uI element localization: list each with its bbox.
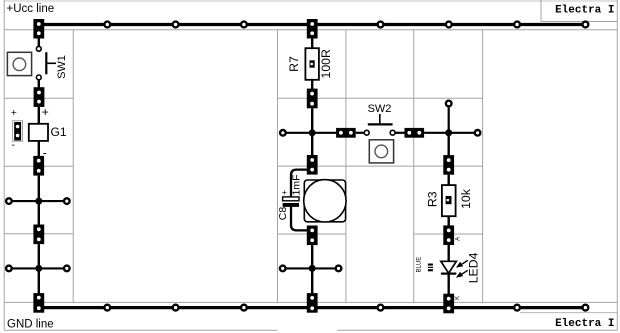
- svg-text:K: K: [455, 296, 461, 300]
- row strip node (left, row B): [6, 266, 70, 272]
- svg-text:1mF: 1mF: [290, 175, 302, 196]
- wire: [38, 80, 40, 88]
- svg-text:A: A: [455, 237, 461, 241]
- svg-text:+: +: [282, 187, 287, 197]
- wire: [38, 39, 40, 47]
- svg-text:GND line: GND line: [7, 319, 54, 331]
- wire: [38, 107, 40, 125]
- svg-text:+: +: [42, 105, 49, 119]
- svg-text:SW1: SW1: [56, 55, 68, 79]
- wire: [356, 132, 364, 134]
- pad P12 (mid row, SW2 right): [405, 128, 425, 138]
- svg-text:LED4: LED4: [467, 252, 481, 283]
- row strip node (middle, row B): [280, 266, 341, 272]
- svg-text:R7: R7: [287, 56, 301, 72]
- pad P10 on GND rail (C8 column): [307, 293, 318, 313]
- pad P7 (R7-mid row): [307, 89, 318, 109]
- wire: [311, 108, 313, 133]
- pad P1 on Ucc rail (SW1 column): [33, 19, 44, 39]
- svg-text:BLUE: BLUE: [416, 257, 422, 273]
- wire: [424, 132, 475, 134]
- LED LED4: [416, 252, 480, 283]
- wire: [448, 216, 450, 226]
- switch SW1: [7, 46, 68, 79]
- wire: [291, 207, 307, 231]
- wire: [311, 80, 313, 90]
- svg-text:G1: G1: [51, 125, 67, 139]
- junction: [309, 265, 316, 272]
- pad P11 (mid row, SW2 left): [336, 128, 356, 138]
- wire: [395, 132, 404, 134]
- wire: [38, 244, 40, 294]
- svg-text:Electra I: Electra I: [555, 318, 614, 330]
- wire: [311, 133, 313, 156]
- svg-text:Electra I: Electra I: [555, 5, 614, 17]
- battery G1: [29, 105, 67, 159]
- pad P4 (rows A-B): [33, 225, 44, 245]
- resistor R7: [287, 48, 333, 80]
- svg-text:+Ucc line: +Ucc line: [7, 3, 55, 15]
- switch SW2: [364, 103, 395, 163]
- capacitor C8 body (top view): [304, 180, 346, 222]
- wire: [448, 133, 450, 156]
- wire: [311, 245, 313, 294]
- +Ucc power rail wire: [38, 22, 588, 28]
- wire: [448, 274, 450, 294]
- svg-text:SW2: SW2: [368, 103, 392, 115]
- junction: [445, 129, 452, 136]
- wire: [311, 39, 313, 49]
- wire: [448, 245, 450, 262]
- pad P5 on GND rail (SW1 column): [33, 293, 44, 313]
- svg-text:C8: C8: [277, 207, 289, 221]
- wire: [38, 176, 40, 225]
- mid row strip wire (left piece): [280, 130, 336, 136]
- wire: [291, 170, 307, 198]
- GND power rail wire: [38, 305, 588, 311]
- capacitor C8 (electrolytic symbol): [277, 175, 302, 221]
- terminal circle (mid row right end): [475, 130, 481, 136]
- pad P13 (mid row-R3): [443, 155, 454, 175]
- junction: [309, 129, 316, 136]
- svg-text:10k: 10k: [459, 188, 473, 209]
- svg-text:100R: 100R: [319, 49, 333, 79]
- pad P3 (G1-row A): [33, 156, 44, 176]
- svg-text:R3: R3: [425, 191, 439, 207]
- row strip node (left, row A): [6, 198, 70, 204]
- pad P9 (C8-row B): [307, 226, 318, 246]
- pad P8 (mid row-C8): [307, 155, 318, 175]
- junction: [35, 198, 42, 205]
- pad P14 (R3-LED4) with pin label A: [443, 225, 461, 245]
- wire: [38, 141, 40, 157]
- pad P15 on GND rail (LED column) with pin label K: [443, 294, 461, 314]
- svg-text:+: +: [11, 107, 17, 119]
- pad P6 on Ucc rail (R7 column): [307, 19, 318, 39]
- junction: [35, 265, 42, 272]
- wire stub with terminal circle: [446, 101, 452, 133]
- svg-text:-: -: [11, 139, 15, 151]
- wire: [448, 175, 450, 186]
- resistor R3: [425, 185, 473, 216]
- pad P2 (SW1-G1): [34, 87, 45, 107]
- battery input connector with polarity marks: [11, 107, 23, 151]
